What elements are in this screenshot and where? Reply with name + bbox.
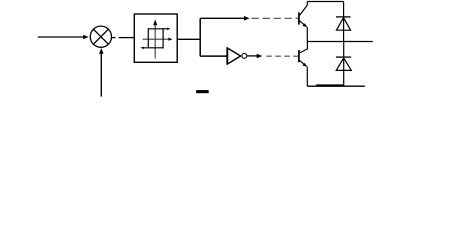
diode D2 cathode bar (336, 56, 351, 58)
transistor Q1 emitter vertical (306, 27, 308, 42)
middle rail (output node) (307, 41, 372, 43)
transistor Q2 collector vertical (306, 42, 308, 49)
transistor Q2 emitter diagonal with arrow (300, 60, 307, 66)
diode D1 vertical (top rail to mid rail) (343, 2, 345, 42)
node branch vertical (199, 18, 201, 56)
transistor Q1 emitter diagonal with arrow (300, 21, 307, 27)
diode D2 triangle (336, 58, 351, 71)
hysteresis loop bottom horizontal with small left arrow (142, 47, 164, 49)
top rail (307, 1, 343, 3)
transistor Q1 (upper) base bar (298, 12, 300, 24)
caption fragment (cropped letter top) (196, 90, 209, 93)
bottom rail doubled artifact segment (316, 84, 344, 86)
wire upper gate line (200, 17, 245, 19)
lower gate arrowhead (257, 54, 263, 59)
upper gate arrowhead (244, 16, 250, 21)
diode D1 cathode bar (336, 16, 351, 18)
hysteresis loop top horizontal with small right arrow (148, 28, 169, 30)
hysteresis x-axis with right arrow (143, 38, 170, 40)
wire input reference line (38, 36, 85, 38)
wire lower branch to inverter (200, 55, 227, 57)
bottom rail (307, 85, 365, 87)
summing junction (circle with X) (90, 26, 111, 47)
hysteresis controller box (134, 14, 177, 62)
inverter (NOT gate) triangle (227, 48, 240, 64)
inverter bubble (242, 53, 247, 58)
hysteresis y-axis with up arrow (154, 22, 156, 58)
wire summer to hysteresis box (112, 37, 116, 39)
diode D1 triangle (336, 18, 350, 31)
input arrowhead into summer (83, 35, 88, 40)
wire box to branch node (177, 38, 200, 40)
wire upper dashed gate line (252, 17, 299, 19)
diode D2 vertical (mid rail to bottom rail) (343, 42, 345, 87)
transistor Q2 emitter vertical (306, 67, 308, 87)
hysteresis loop right vertical (162, 28, 164, 48)
inverter output line (247, 55, 258, 57)
transistor Q2 (lower) base bar (298, 50, 300, 62)
feedback arrow (vertical, pointing up into summer) (100, 53, 102, 97)
transistor Q1 collector diagonal (300, 2, 308, 16)
transistor Q2 collector diagonal (300, 49, 308, 53)
wire lower dashed gate line (266, 55, 298, 57)
hysteresis loop left vertical (147, 28, 149, 48)
